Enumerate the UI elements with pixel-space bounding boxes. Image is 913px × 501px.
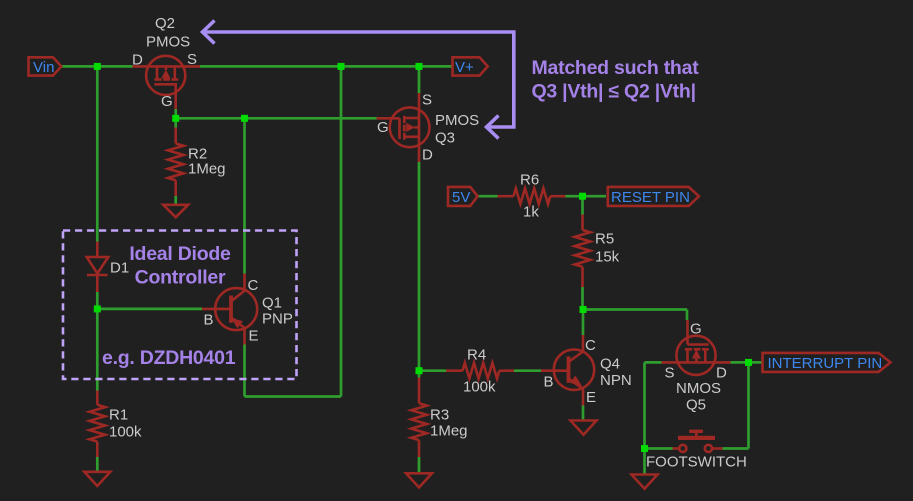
pmos Q2 [133,56,201,109]
wire INTERRUPT node down [747,362,750,448]
annotation arrow polyline [203,21,514,139]
wire source node to footswitch [645,447,673,450]
svg-text:Vin: Vin [33,59,54,76]
footswitch pushbutton [673,430,723,452]
flag V+ [453,57,488,76]
resistor R4 [446,363,514,379]
junction R3 node [416,367,423,374]
ground under R2 [163,205,188,218]
junction INTERRUPT node [745,359,752,366]
junction emitter column top [338,63,345,70]
wire base node to Q1 base [97,308,202,311]
svg-text:Matched such that: Matched such that [532,57,700,79]
svg-text:E: E [249,328,259,345]
resistor R1 [90,391,106,458]
wire gate row to Q3 gate [176,117,377,120]
svg-text:R6: R6 [520,172,539,189]
wire D1 cathode to base node [96,292,99,309]
wire base node down to R1 [96,309,99,391]
svg-text:Controller: Controller [135,267,226,289]
svg-text:PMOS: PMOS [435,112,479,129]
wire R3 to ground [418,457,421,474]
svg-text:NMOS: NMOS [676,380,721,397]
wire divider row to Q5 gate [583,308,687,311]
svg-text:NPN: NPN [600,372,632,389]
flag Vin [29,57,62,76]
svg-text:D: D [716,365,727,382]
wire gate node down to R2 [174,118,177,127]
svg-text:B: B [204,312,214,329]
ground under R3 [406,473,432,487]
svg-text:C: C [248,277,259,294]
svg-text:G: G [161,93,173,110]
svg-text:S: S [422,92,432,109]
svg-text:15k: 15k [595,249,620,266]
pnp Q1 [202,274,257,345]
wire Q1 emitter down [243,345,246,397]
wire divider node to Q4 collector [582,310,585,336]
wire R3 node to R4 [419,369,446,372]
svg-text:S: S [665,365,675,382]
svg-text:B: B [544,374,554,391]
wire source column down [643,362,646,448]
ground under footswitch [632,475,658,489]
svg-text:E: E [586,389,596,406]
svg-text:Q4: Q4 [600,356,620,373]
wire R1 to ground [96,457,99,472]
junction RESET node [579,193,586,200]
wire R3 node to R3 [418,371,421,378]
svg-text:INTERRUPT PIN: INTERRUPT PIN [768,355,883,372]
junction footswitch node [641,445,648,452]
nmos Q5 [662,320,731,375]
resistor R6 [498,188,566,204]
svg-text:Q3: Q3 [435,130,455,147]
wire RESET node down to R5 [581,196,584,214]
svg-text:R1: R1 [109,407,128,424]
svg-text:5V: 5V [452,189,470,206]
wire Q3 drain down to R3 node [418,162,421,371]
svg-text:D: D [132,52,143,69]
wire down to Q5 gate lead [686,310,689,321]
pmos Q3 [377,93,430,162]
svg-text:D: D [422,147,433,164]
wire Vin column down to D1 [96,66,99,241]
svg-text:1Meg: 1Meg [430,423,468,440]
svg-text:G: G [377,119,389,136]
junction divider node [580,306,587,313]
resistor R2 [168,128,184,197]
junction Q3 source column [416,63,423,70]
flag RESET PIN [608,187,699,206]
wire collector column Q1 [243,118,246,273]
junction Q1 collector [241,115,248,122]
svg-text:R4: R4 [467,347,486,364]
wire top rail to Q3 source [418,66,421,93]
flag 5V [448,187,478,206]
svg-text:C: C [585,337,596,354]
flag INTERRUPT PIN [763,353,891,372]
wire footswitch right to column [723,447,749,450]
svg-text:R5: R5 [595,231,614,248]
svg-text:100k: 100k [463,379,496,396]
npn Q4 [541,335,594,406]
svg-text:S: S [187,51,197,68]
wire R2 to ground [174,196,177,205]
svg-text:RESET PIN: RESET PIN [611,189,690,206]
wire top rail Vin to Q2 drain [61,65,133,68]
svg-text:G: G [690,321,702,338]
wire Q2 gate to gate node [174,109,177,118]
svg-text:V+: V+ [455,59,474,76]
annotation dashed box Ideal Diode Controller [63,231,297,380]
wire R4 to Q4 base [514,369,541,372]
diode D1 [87,242,109,293]
svg-text:D1: D1 [110,260,129,277]
wire emitter row to right [245,395,342,398]
svg-text:Q5: Q5 [686,397,706,414]
wire Q5 source left [645,361,662,364]
wire Q4 emitter to ground [582,406,585,421]
wire source node to ground [643,449,646,475]
svg-text:e.g. DZDH0401: e.g. DZDH0401 [102,347,236,369]
wire R6 to RESET PIN node [566,195,607,198]
svg-text:PNP: PNP [262,311,293,328]
wire Q5 drain to INTERRUPT node [731,361,763,364]
svg-text:1Meg: 1Meg [188,161,226,178]
svg-text:FOOTSWITCH: FOOTSWITCH [646,454,747,471]
svg-text:100k: 100k [109,424,142,441]
resistor R5 [575,215,591,288]
wire 5V to R6 [477,195,498,198]
wire top rail Q2 source to V+ [200,65,453,68]
junction Vin column [94,63,101,70]
svg-text:Q2: Q2 [155,15,175,32]
svg-text:1k: 1k [523,204,539,221]
svg-text:PMOS: PMOS [146,34,190,51]
resistor R3 [411,378,427,458]
junction Q1 base [94,305,101,312]
wire right column up to top rail [340,66,343,396]
ground under Q4 [571,421,597,435]
wire R5 to divider node [581,287,584,310]
svg-text:Q1: Q1 [262,295,282,312]
junction Q2 gate [172,115,179,122]
svg-text:Ideal Diode: Ideal Diode [129,243,231,265]
ground under R1 [84,472,110,486]
svg-text:Q3 |Vth| ≤ Q2 |Vth|: Q3 |Vth| ≤ Q2 |Vth| [532,81,696,103]
svg-text:R3: R3 [430,407,449,424]
